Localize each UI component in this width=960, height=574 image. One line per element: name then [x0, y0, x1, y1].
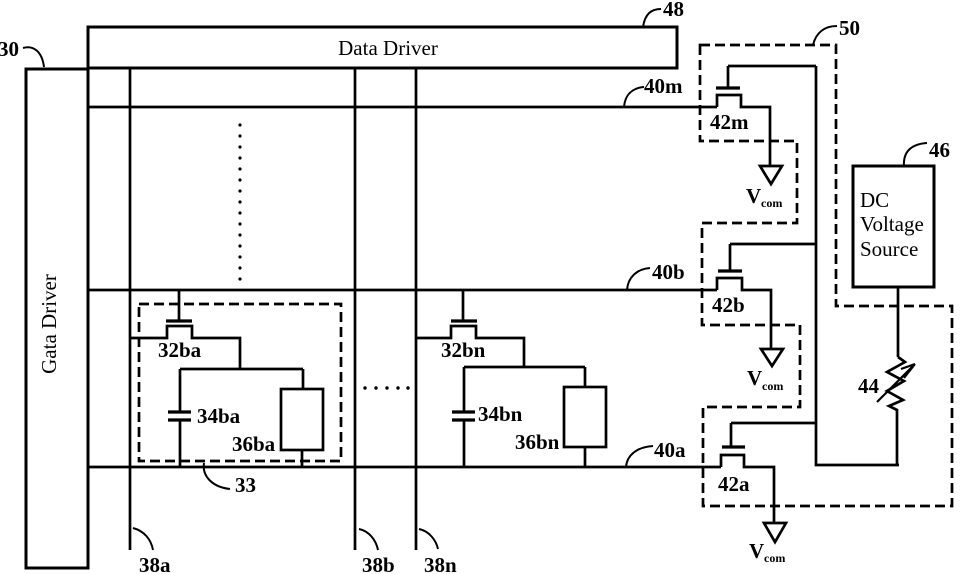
gate driver box 30: [26, 69, 88, 568]
wire 42b gate to bus: [730, 243, 816, 246]
transistor 42m gate bar: [716, 86, 740, 89]
transistor 32ba gate bar: [166, 319, 192, 322]
transistor 42a gate bar: [722, 445, 745, 448]
leader 50: [813, 26, 837, 45]
svg-text:com: com: [762, 379, 783, 393]
capacitor 34ba plates: [168, 412, 191, 420]
leader 38a: [133, 528, 153, 550]
svg-text:V: V: [747, 366, 762, 390]
svg-text:32bn: 32bn: [441, 338, 486, 362]
leader 38b: [359, 529, 378, 550]
svg-text:50: 50: [839, 16, 860, 40]
transistor 42b gate wire: [729, 244, 732, 271]
svg-text:40m: 40m: [644, 74, 683, 98]
svg-text:46: 46: [929, 138, 950, 162]
svg-text:44: 44: [858, 374, 880, 398]
leader 40a: [626, 446, 653, 467]
svg-text:36bn: 36bn: [515, 430, 560, 454]
wire 36bn bottom: [584, 447, 587, 467]
transistor 32bn gate bar: [451, 319, 477, 322]
svg-text:V: V: [746, 184, 761, 208]
svg-text:33: 33: [235, 473, 256, 497]
transistor 42m channel and drain: [717, 95, 770, 165]
data driver box 48: [88, 27, 677, 68]
svg-text:Gata Driver: Gata Driver: [37, 274, 61, 374]
wire 42m gate to bus: [728, 65, 816, 68]
data line 38b: [354, 68, 357, 550]
node wire cell ba: [180, 368, 303, 371]
svg-text:Voltage: Voltage: [860, 212, 924, 236]
leader 40m: [624, 87, 644, 107]
svg-text:32ba: 32ba: [158, 338, 202, 362]
svg-text:42a: 42a: [718, 472, 750, 496]
wire 36ba bottom: [301, 450, 304, 467]
svg-text:com: com: [761, 196, 782, 210]
capacitor 34bn top wire: [463, 367, 466, 412]
Vcom symbol a: [764, 523, 786, 542]
leader 33: [204, 463, 230, 489]
transistor 42m gate wire: [727, 66, 730, 88]
gate bus wire: [816, 66, 899, 465]
svg-text:34ba: 34ba: [197, 404, 241, 428]
svg-text:com: com: [764, 551, 785, 565]
node wire cell bn: [464, 366, 585, 369]
transistor 42b channel and drain: [717, 278, 771, 349]
wire DC source to resistor: [897, 287, 900, 357]
transistor 42b gate bar: [718, 269, 742, 272]
wire 36bn top: [584, 367, 587, 387]
gate line 40a: [88, 466, 721, 469]
dashed region 50 outline: [700, 45, 952, 506]
svg-text:30: 30: [0, 37, 19, 61]
DC voltage source box 46: [853, 166, 934, 287]
svg-text:40a: 40a: [654, 438, 686, 462]
pixel element 36ba: [281, 389, 323, 450]
transistor 42a channel and drain: [721, 455, 774, 523]
wire 42a gate to bus: [731, 422, 816, 425]
svg-text:V: V: [749, 539, 764, 563]
wire 36ba top: [302, 369, 305, 389]
gate line 40m: [88, 106, 717, 109]
svg-text:Data Driver: Data Driver: [338, 36, 438, 60]
svg-text:36ba: 36ba: [232, 432, 276, 456]
leader 30: [23, 47, 44, 67]
svg-text:38n: 38n: [424, 553, 457, 574]
capacitor 34ba bottom wire: [179, 420, 182, 467]
transistor 32bn channel: [416, 326, 524, 367]
transistor 32ba channel: [130, 326, 240, 369]
capacitor 34bn bottom wire: [463, 420, 466, 467]
data line 38a: [129, 68, 132, 550]
leader 38n: [419, 529, 438, 549]
variable resistor 44 zigzag: [887, 357, 905, 465]
svg-text:Source: Source: [860, 237, 918, 261]
svg-text:38b: 38b: [362, 553, 395, 574]
svg-text:38a: 38a: [139, 553, 171, 574]
transistor 32ba gate wire: [178, 290, 181, 321]
transistor 32bn gate wire: [462, 290, 465, 321]
capacitor 34ba top wire: [179, 369, 182, 412]
Vcom symbol m: [760, 166, 782, 184]
Vcom symbol b: [761, 349, 783, 366]
variable resistor 44 arrow: [877, 364, 915, 402]
vertical ellipsis dots: [238, 123, 241, 280]
svg-text:42b: 42b: [712, 293, 745, 317]
gate line 40b: [88, 289, 717, 292]
svg-text:34bn: 34bn: [478, 402, 523, 426]
capacitor 34bn plates: [452, 412, 475, 420]
horizontal ellipsis dots: [363, 386, 409, 389]
svg-text:40b: 40b: [652, 260, 685, 284]
leader 48: [643, 9, 661, 27]
data line 38n: [415, 68, 418, 550]
svg-text:48: 48: [663, 0, 684, 21]
svg-text:42m: 42m: [710, 110, 749, 134]
leader 46: [904, 143, 927, 166]
svg-text:DC: DC: [860, 188, 889, 212]
transistor 42a gate wire: [730, 423, 733, 447]
dashed pixel box 33: [139, 304, 341, 461]
pixel element 36bn: [564, 387, 606, 447]
leader 40b: [627, 268, 650, 290]
